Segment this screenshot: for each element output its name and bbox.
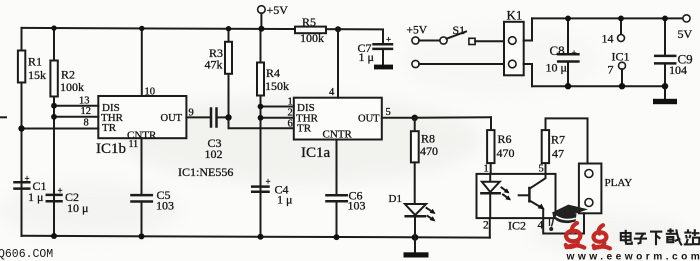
svg-text:103: 103 <box>348 199 366 213</box>
svg-text:+: + <box>386 35 391 45</box>
svg-text:10 μ: 10 μ <box>546 61 567 75</box>
svg-text:D1: D1 <box>389 193 402 205</box>
svg-text:+: + <box>25 174 30 184</box>
svg-text:12: 12 <box>81 106 92 117</box>
svg-text:4: 4 <box>538 220 544 232</box>
svg-text:+5V: +5V <box>407 25 428 37</box>
svg-text:R7: R7 <box>551 133 565 147</box>
svg-text:C8: C8 <box>550 43 565 58</box>
svg-text:8: 8 <box>84 118 89 129</box>
svg-text:7: 7 <box>608 63 614 77</box>
svg-text:150k: 150k <box>265 79 289 93</box>
svg-text:6: 6 <box>288 119 293 130</box>
svg-text:CNTR: CNTR <box>323 129 353 141</box>
svg-text:PLAY: PLAY <box>605 177 633 189</box>
svg-text:+: + <box>572 48 577 58</box>
svg-text:10 μ: 10 μ <box>67 201 88 215</box>
svg-text:IC2: IC2 <box>508 219 526 233</box>
svg-text:102: 102 <box>205 147 223 161</box>
svg-text:+: + <box>58 186 63 196</box>
svg-text:10: 10 <box>145 87 156 98</box>
svg-text:2: 2 <box>483 220 489 232</box>
svg-text:+5V: +5V <box>267 3 289 17</box>
svg-text:47k: 47k <box>205 57 223 71</box>
svg-text:100k: 100k <box>60 80 84 94</box>
svg-text:47: 47 <box>552 147 564 161</box>
svg-text:IC1:NE556: IC1:NE556 <box>178 165 233 179</box>
svg-text:470: 470 <box>497 146 515 160</box>
svg-text:15k: 15k <box>28 68 46 82</box>
svg-text:13: 13 <box>79 96 90 107</box>
svg-text:4: 4 <box>329 87 335 98</box>
svg-text:103: 103 <box>156 199 174 213</box>
svg-text:IC1: IC1 <box>612 50 630 64</box>
svg-text:470: 470 <box>420 144 438 158</box>
svg-text:K1: K1 <box>507 8 523 23</box>
svg-text:1: 1 <box>288 97 293 108</box>
svg-text:www.eeworm.com: www.eeworm.com <box>566 251 700 261</box>
svg-text:1: 1 <box>484 164 489 175</box>
svg-text:11: 11 <box>129 139 139 150</box>
svg-text:R1: R1 <box>28 55 42 69</box>
svg-text:5V: 5V <box>678 27 693 41</box>
svg-text:OUT: OUT <box>161 113 183 124</box>
svg-text:R4: R4 <box>266 66 280 80</box>
svg-text:S1: S1 <box>453 23 466 37</box>
svg-text:9: 9 <box>189 108 194 119</box>
svg-text:+: + <box>266 177 271 187</box>
svg-text:OUT: OUT <box>358 114 380 125</box>
svg-text:1 μ: 1 μ <box>277 193 292 207</box>
svg-text:100k: 100k <box>300 31 324 45</box>
svg-text:IC1a: IC1a <box>301 145 331 161</box>
svg-text:R6: R6 <box>498 132 512 146</box>
svg-text:1 μ: 1 μ <box>359 50 374 64</box>
svg-text:TR: TR <box>297 123 312 135</box>
svg-text:2: 2 <box>288 108 293 119</box>
svg-text:104: 104 <box>669 63 687 77</box>
svg-text:5: 5 <box>539 164 544 175</box>
svg-text:Q606.COM: Q606.COM <box>0 248 53 261</box>
svg-text:5: 5 <box>386 107 391 118</box>
svg-text:14: 14 <box>602 32 614 46</box>
svg-text:TR: TR <box>102 122 117 134</box>
svg-text:1 μ: 1 μ <box>28 190 43 204</box>
svg-text:R5: R5 <box>302 15 316 29</box>
svg-text:IC1b: IC1b <box>96 141 126 157</box>
